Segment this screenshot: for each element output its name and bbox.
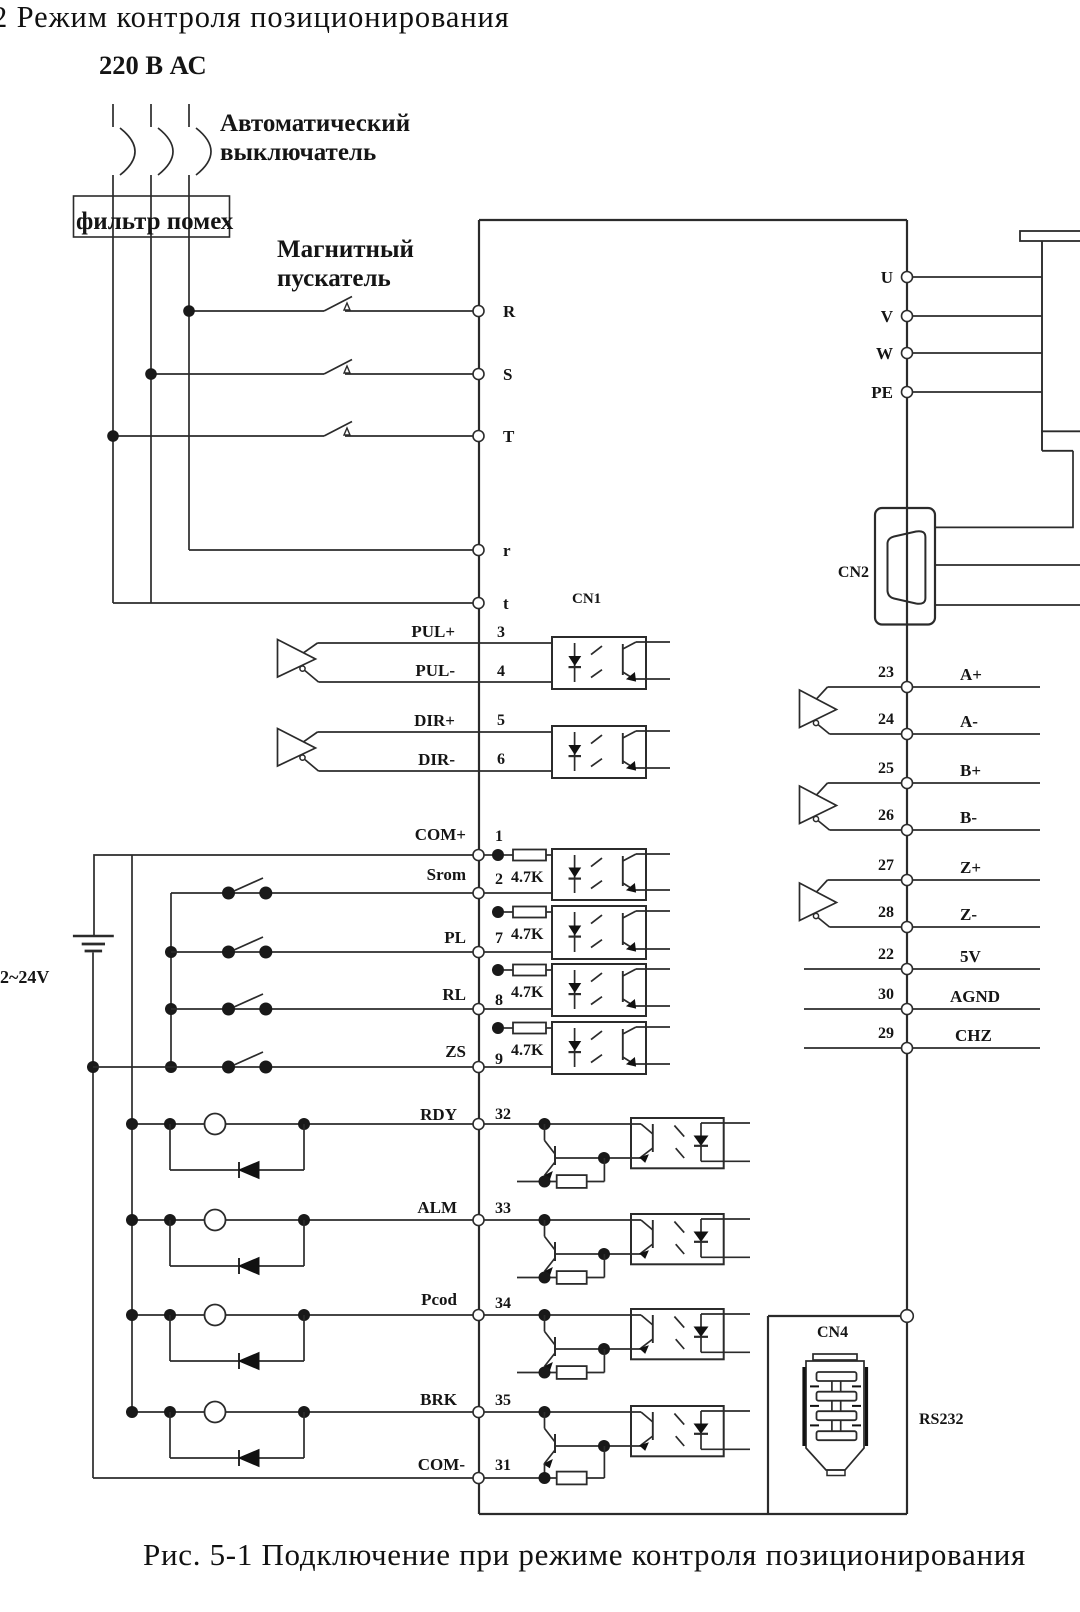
relay K4 with flyback diode D4 (BRK) [126,1402,473,1467]
svg-text:RS232: RS232 [919,1411,963,1428]
svg-text:RDY: RDY [420,1105,457,1124]
terminal pin 2 [473,888,484,899]
svg-text:t: t [503,594,509,613]
label DIR- [418,750,455,769]
pin 1 [495,828,503,845]
label ZS [445,1042,466,1061]
wire Srom row + switch S1 [171,878,473,900]
label Pcod [421,1290,457,1309]
label ALM [417,1198,457,1217]
wire encoder cable [935,451,1073,528]
optocoupler U8 (output) [631,1214,750,1264]
wire CN2 to encoder line 3 [935,604,1080,606]
optocoupler U3 (input) [484,849,670,900]
svg-text:фильтр помех: фильтр помех [76,208,234,235]
wire switch rail [170,893,172,1067]
svg-text:24: 24 [878,711,894,728]
terminal pin 25 (B+) [878,760,981,789]
wire rail to outputs common [131,855,133,1412]
wire to terminal r [189,549,473,551]
svg-text:CN1: CN1 [572,591,601,607]
svg-text:Z-: Z- [960,905,977,924]
noise filter box (фильтр помех) [74,196,234,237]
transistor Q1 output driver [484,1118,641,1182]
wire PE ground [913,391,1043,393]
svg-text:U: U [881,268,893,287]
connector CN4 box [768,1310,913,1514]
svg-text:CN4: CN4 [817,1324,848,1341]
optocoupler U10 (output) [631,1406,750,1456]
svg-text:r: r [503,541,511,560]
resistor R2 4.7K [492,906,552,943]
wire 5V to encoder [913,968,1041,970]
circuit breaker pole 1 [120,128,135,175]
wire Z+ to encoder [913,879,1041,881]
svg-text:Магнитный: Магнитный [277,236,414,263]
terminal pin 9 [473,1062,484,1073]
pin 6 [497,751,505,768]
terminal pin 7 [473,947,484,958]
optocoupler U1 (PUL input) [552,637,670,689]
pin 4 [497,663,505,680]
svg-text:23: 23 [878,664,894,681]
terminal V [881,307,913,326]
wire V phase [913,315,1043,317]
wire B- to encoder [913,829,1041,831]
pin 32 [495,1106,511,1123]
pin 33 [495,1200,511,1217]
svg-text:27: 27 [878,857,894,874]
svg-text:4.7K: 4.7K [511,1042,544,1059]
wire Z- to encoder [913,926,1041,928]
svg-text:ALM: ALM [417,1198,457,1217]
svg-text:5V: 5V [960,947,982,966]
svg-text:28: 28 [878,904,894,921]
label PL [444,928,466,947]
label circuit breaker (Автоматический выключатель) [220,110,410,166]
pin 7 [495,930,503,947]
contactor contact + wire row T [107,422,472,442]
transistor Q2 output driver [484,1214,641,1278]
relay K2 with flyback diode D2 (ALM) [126,1210,473,1275]
svg-text:PE: PE [871,383,893,402]
wire ZS row + switch S4 [87,1052,473,1074]
line receiver Z (differential) [800,880,902,927]
wire 220V AC phase 1 vertical [112,104,114,603]
terminal pin 23 (A+) [878,664,982,693]
wire A- to encoder [913,733,1041,735]
label Srom [427,865,466,884]
svg-text:Pcod: Pcod [421,1290,457,1309]
wire A+ to encoder [913,686,1041,688]
terminal R [473,302,516,321]
pin 9 [495,1051,503,1068]
pin 35 [495,1392,511,1409]
servo drive enclosure [479,220,907,1514]
svg-text:12~24V: 12~24V [0,967,49,987]
svg-text:8: 8 [495,992,503,1009]
resistor R7 base-emitter [517,1349,604,1379]
svg-text:CN2: CN2 [838,564,869,581]
terminal pin 1 [473,850,484,861]
svg-text:5: 5 [497,712,505,729]
page heading [0,0,510,34]
svg-text:4.7K: 4.7K [511,926,544,943]
svg-text:CHZ: CHZ [955,1026,992,1045]
pin 5 [497,712,505,729]
pin 3 [497,624,505,641]
terminal pin 35 [473,1407,484,1418]
connector CN4 plug drawing [804,1354,867,1476]
svg-text:32: 32 [495,1106,511,1123]
svg-text:Srom: Srom [427,865,466,884]
servo motor body [1020,231,1080,451]
relay K3 with flyback diode D3 (Pcod) [126,1305,473,1370]
label BRK [420,1390,458,1409]
svg-text:пускатель: пускатель [277,265,391,292]
svg-text:26: 26 [878,807,894,824]
svg-text:4.7K: 4.7K [511,984,544,1001]
label RS232 [919,1411,963,1428]
terminal pin 8 [473,1004,484,1015]
svg-text:2 Режим контроля позиционирова: 2 Режим контроля позиционирования [0,0,510,34]
svg-text:COM-: COM- [418,1455,466,1474]
svg-text:RL: RL [442,985,466,1004]
figure caption [143,1537,1026,1572]
resistor R1 4.7K [484,849,552,886]
wire COM+ rail [94,855,473,935]
svg-text:Автоматический: Автоматический [220,110,410,137]
svg-text:A+: A+ [960,665,982,684]
svg-text:B-: B- [960,808,977,827]
wire RL row + switch S3 [165,994,473,1016]
resistor R5 base-emitter [517,1158,604,1188]
svg-text:31: 31 [495,1457,511,1474]
wire to terminal t [113,602,473,604]
optocoupler U7 (output) [631,1118,750,1168]
svg-text:30: 30 [878,986,894,1003]
svg-text:9: 9 [495,1051,503,1068]
svg-text:7: 7 [495,930,503,947]
label PUL+ [411,622,455,641]
contactor contact + wire row S [145,360,472,380]
pin 8 [495,992,503,1009]
terminal PE [871,383,912,402]
terminal pin 22 (5V) [878,946,982,975]
terminal pin 30 (AGND) [878,986,1000,1015]
svg-text:AGND: AGND [950,987,1000,1006]
transistor Q4 output driver [484,1406,641,1478]
terminal W [876,344,913,363]
label 12~24V [0,967,49,987]
wire 220V AC phase 3 vertical [188,104,190,550]
label CN1 [572,591,601,607]
line driver for PUL (differential) [278,640,553,683]
svg-text:Z+: Z+ [960,858,981,877]
resistor R6 base-emitter [517,1254,604,1284]
terminal t [473,594,509,613]
optocoupler U6 (input) [484,1022,670,1074]
label RDY [420,1105,457,1124]
wire B+ to encoder [913,782,1041,784]
terminal S [473,365,512,384]
optocoupler U2 (DIR input) [552,726,670,778]
line receiver A (differential) [800,687,902,734]
wire W phase [913,352,1043,354]
svg-text:R: R [503,302,516,321]
svg-text:2: 2 [495,871,503,888]
label RL [442,985,466,1004]
terminal pin 27 (Z+) [878,857,981,886]
label COM- [418,1455,466,1474]
svg-text:29: 29 [878,1025,894,1042]
line driver for DIR (differential) [278,729,553,772]
contactor contact + wire row R [183,297,472,317]
svg-text:T: T [503,427,515,446]
terminal pin 32 [473,1119,484,1130]
svg-text:6: 6 [497,751,505,768]
label DIR+ [414,711,455,730]
terminal pin 28 (Z-) [878,904,977,933]
resistor R8 base-emitter [484,1446,604,1484]
terminal pin 31 [473,1473,484,1484]
svg-text:DIR-: DIR- [418,750,455,769]
wire CHZ to encoder [913,1047,1041,1049]
line receiver B (differential) [800,783,902,830]
resistor R3 4.7K [492,964,552,1001]
svg-text:22: 22 [878,946,894,963]
wire AGND to encoder [913,1008,1041,1010]
svg-text:33: 33 [495,1200,511,1217]
wire COM- return [93,1477,473,1479]
svg-text:34: 34 [495,1295,511,1312]
terminal pin 24 (A-) [878,711,978,740]
pin 2 [495,871,503,888]
battery 12-24V [73,936,114,1478]
svg-text:S: S [503,365,512,384]
svg-text:W: W [876,344,893,363]
svg-text:DIR+: DIR+ [414,711,455,730]
terminal pin 29 (CHZ) [878,1025,992,1054]
terminal pin 33 [473,1215,484,1226]
pin 31 [495,1457,511,1474]
wire 220V AC phase 2 vertical [150,104,152,603]
label 220 V AC [99,50,207,80]
svg-text:выключатель: выключатель [220,139,376,166]
terminal pin 26 (B-) [878,807,977,836]
svg-text:V: V [881,307,894,326]
wire CN2 to encoder line 2 [935,564,1080,566]
wire CHZ stub [804,1047,902,1049]
label magnetic contactor (Магнитный пускатель) [277,236,414,292]
resistor R4 4.7K [492,1022,552,1059]
wire PL row + switch S2 [165,937,473,959]
svg-text:PL: PL [444,928,466,947]
terminal U [881,268,913,287]
optocoupler U9 (output) [631,1309,750,1359]
circuit breaker pole 3 [196,128,211,175]
label COM+ [415,825,466,844]
svg-text:ZS: ZS [445,1042,466,1061]
svg-text:3: 3 [497,624,505,641]
circuit breaker pole 2 [158,128,173,175]
svg-text:35: 35 [495,1392,511,1409]
terminal r [473,541,511,560]
svg-text:25: 25 [878,760,894,777]
wire 5V stub [804,968,902,970]
terminal pin 34 [473,1310,484,1321]
svg-text:BRK: BRK [420,1390,458,1409]
svg-text:COM+: COM+ [415,825,466,844]
svg-text:PUL-: PUL- [415,661,455,680]
svg-text:4.7K: 4.7K [511,869,544,886]
pin 34 [495,1295,511,1312]
relay K1 with flyback diode D1 (RDY) [126,1114,473,1179]
optocoupler U5 (input) [484,964,670,1016]
svg-text:Рис. 5-1 Подключение при режим: Рис. 5-1 Подключение при режиме контроля… [143,1537,1026,1572]
connector CN2 [838,508,935,625]
wire U phase [913,276,1043,278]
optocoupler U4 (input) [484,906,670,959]
svg-text:4: 4 [497,663,505,680]
svg-text:PUL+: PUL+ [411,622,455,641]
svg-text:B+: B+ [960,761,981,780]
transistor Q3 output driver [484,1309,641,1373]
svg-text:1: 1 [495,828,503,845]
label PUL- [415,661,455,680]
wire AGND stub [804,1008,902,1010]
terminal T [473,427,515,446]
svg-text:A-: A- [960,712,978,731]
svg-text:220 В АС: 220 В АС [99,50,207,80]
